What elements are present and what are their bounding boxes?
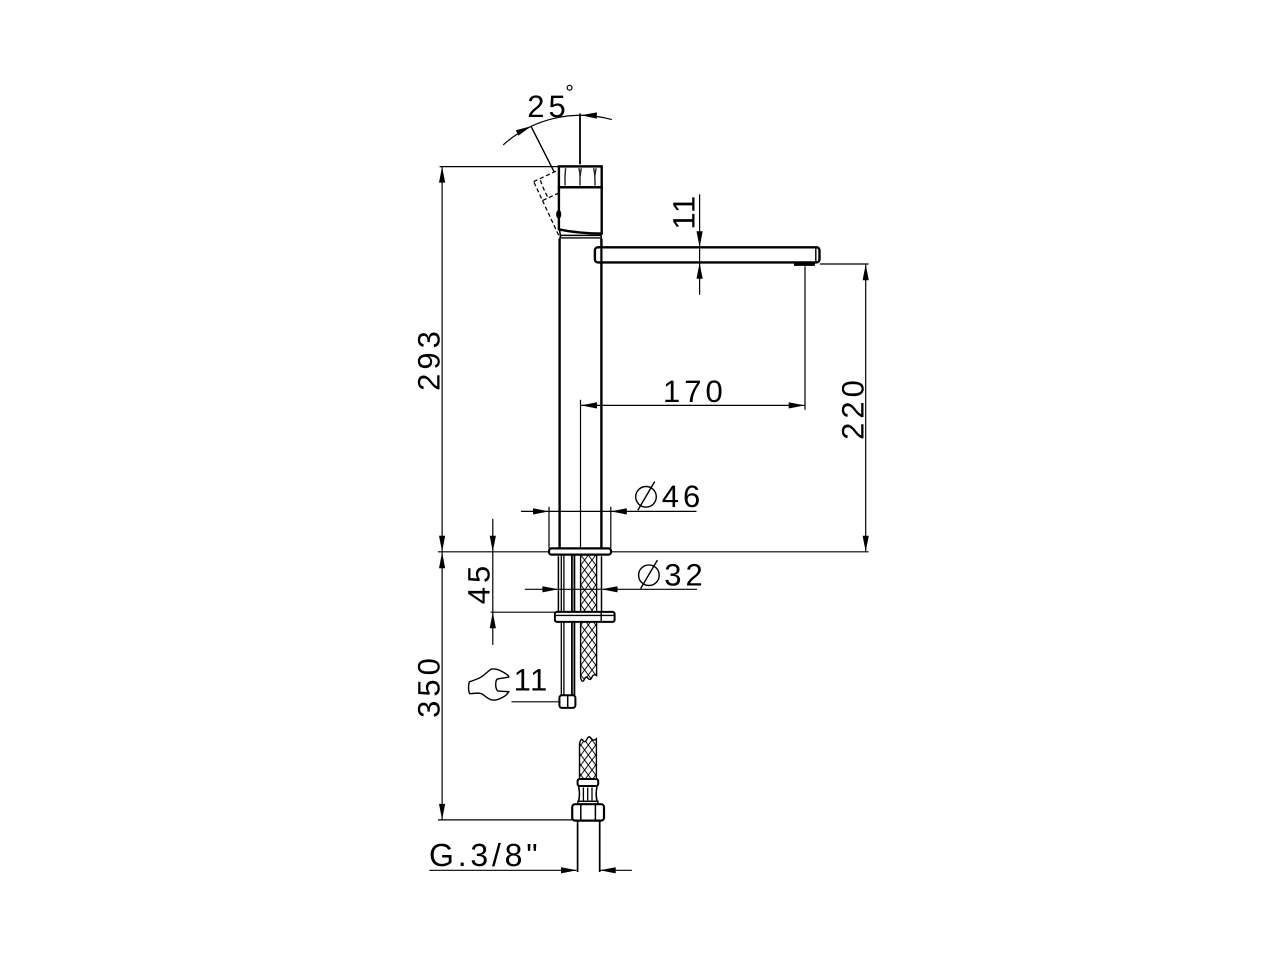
base flange: [549, 548, 611, 554]
handle centerline tilted: [531, 126, 555, 172]
hose collar: [578, 779, 599, 786]
shank silhouette / extension lines: [558, 556, 601, 611]
handle body: [559, 187, 602, 233]
dimension 170 line: [581, 404, 805, 406]
connection pipe G3/8: [578, 821, 600, 872]
dimension G.3/8 line: [429, 869, 632, 871]
degree symbol: [567, 85, 572, 90]
swivel ring under handle: [560, 234, 601, 236]
svg-text:25: 25: [527, 89, 569, 124]
svg-text:11: 11: [514, 663, 549, 698]
svg-text:170: 170: [663, 374, 727, 409]
spout end inner line: [815, 248, 817, 261]
dia symbol 32: [639, 565, 660, 586]
dimension dia46: [521, 510, 697, 512]
rod end nut: [559, 695, 575, 708]
column edge through spout: [600, 247, 602, 262]
mounting nut plate: [555, 612, 615, 622]
svg-text:293: 293: [412, 327, 447, 391]
flexible hose (braided, lower): [580, 737, 597, 779]
spout: [595, 247, 820, 262]
svg-text:45: 45: [462, 562, 497, 604]
extension line bottom (hose end): [438, 819, 575, 821]
svg-text:220: 220: [836, 376, 871, 440]
svg-text:G.3/8": G.3/8": [429, 837, 541, 873]
handle cap (knurled): [559, 166, 602, 187]
handle index dot: [556, 210, 561, 219]
dimension 45: [492, 519, 494, 645]
spout end extension: [804, 266, 806, 410]
hose neck band: [578, 801, 598, 804]
wrench leader line: [512, 701, 561, 703]
svg-text:46: 46: [662, 479, 704, 514]
flexible hose (braided, upper): [581, 555, 597, 681]
extension line top (handle top): [440, 166, 559, 168]
handle tilted 25 degrees (dashed phantom position): [534, 163, 601, 242]
dimension dia32: [525, 588, 697, 590]
dimension 293/350 line: [441, 167, 443, 820]
svg-text:11: 11: [666, 194, 701, 229]
dimension 11 spout thickness: [699, 194, 701, 294]
column centerline extension: [580, 400, 582, 548]
handle centerline vertical: [579, 114, 581, 165]
extension line nut plate: [491, 611, 556, 613]
wrench icon: [469, 669, 509, 700]
dimension 220 line: [865, 264, 867, 552]
faucet body column: [560, 239, 602, 549]
svg-text:350: 350: [412, 654, 447, 718]
hose hex nut: [572, 804, 604, 820]
threaded stud below flange: [572, 556, 575, 696]
cap fluting marks: [565, 168, 596, 185]
aerator: [794, 262, 815, 266]
dia symbol 46: [636, 487, 657, 508]
hose ribbed section: [579, 787, 597, 802]
pull rod below flange: [561, 556, 564, 696]
extension line spout underside: [820, 263, 869, 265]
angle dimension 25 deg arc: [503, 115, 612, 145]
extension line counter level: [438, 551, 869, 553]
svg-text:32: 32: [664, 557, 706, 592]
